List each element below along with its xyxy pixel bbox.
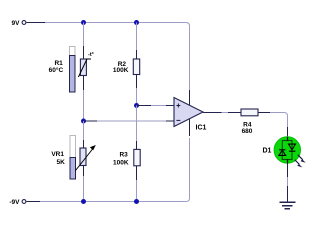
wire left column middle (junction to VR1) xyxy=(83,121,85,201)
node junction top R2 column xyxy=(134,20,139,25)
op-amp IC1 xyxy=(174,98,203,127)
wire bottom rail xyxy=(27,198,190,202)
LED D1 symbol (bi-colour: two anti-parallel diodes) xyxy=(279,137,296,163)
svg-text:-t°: -t° xyxy=(88,52,94,58)
svg-text:100K: 100K xyxy=(113,67,129,74)
resistor R2 xyxy=(133,59,139,75)
svg-text:100K: 100K xyxy=(113,159,129,166)
wire top rail xyxy=(27,23,190,27)
node junction bottom R3 column xyxy=(134,199,139,204)
wire R3 column xyxy=(136,141,138,201)
node junction bottom left column xyxy=(81,199,86,204)
svg-text:9V: 9V xyxy=(12,20,21,27)
label R3 100K xyxy=(113,151,129,166)
svg-text:60°C: 60°C xyxy=(49,66,64,74)
label VR1 5K xyxy=(51,151,65,166)
LED D1 glow xyxy=(274,137,300,163)
svg-text:R1: R1 xyxy=(54,60,63,67)
svg-text:IC1: IC1 xyxy=(196,125,207,132)
wire to non-inverting input xyxy=(137,105,175,107)
node junction top left column xyxy=(81,20,86,25)
svg-text:VR1: VR1 xyxy=(51,151,64,158)
terminal 9V xyxy=(22,21,26,25)
svg-text:D1: D1 xyxy=(263,148,272,155)
thermometer slider of R1 xyxy=(70,47,76,93)
wire R2 column lower (through crossing) xyxy=(136,106,138,142)
wire op-amp bottom power pin xyxy=(189,119,191,198)
wire op-amp output xyxy=(203,112,241,114)
wire R2 column upper xyxy=(136,23,138,106)
wire to inverting input xyxy=(84,120,175,122)
slider of VR1 xyxy=(70,136,76,180)
ground xyxy=(279,202,295,209)
svg-text:5K: 5K xyxy=(56,159,65,166)
wire op-amp top power pin xyxy=(189,26,191,105)
label R1 60C xyxy=(49,60,64,74)
label R2 100K xyxy=(113,61,129,74)
svg-text:680: 680 xyxy=(242,128,253,135)
wire left column upper (to thermistor) xyxy=(83,23,85,122)
node junction non-inverting input xyxy=(134,103,139,108)
potentiometer VR1 xyxy=(76,145,96,171)
wire LED to ground xyxy=(287,163,289,202)
thermistor R1 xyxy=(78,59,91,77)
wire R4 to LED xyxy=(258,113,288,139)
resistor R3 xyxy=(134,149,140,165)
LED D1 light arrows xyxy=(295,155,306,168)
terminal -9V xyxy=(22,200,26,204)
svg-text:R3: R3 xyxy=(119,151,128,158)
svg-text:-9V: -9V xyxy=(9,199,20,206)
node junction inverting input xyxy=(81,119,86,124)
resistor R4 xyxy=(241,109,258,116)
label R4 680 xyxy=(242,122,253,136)
